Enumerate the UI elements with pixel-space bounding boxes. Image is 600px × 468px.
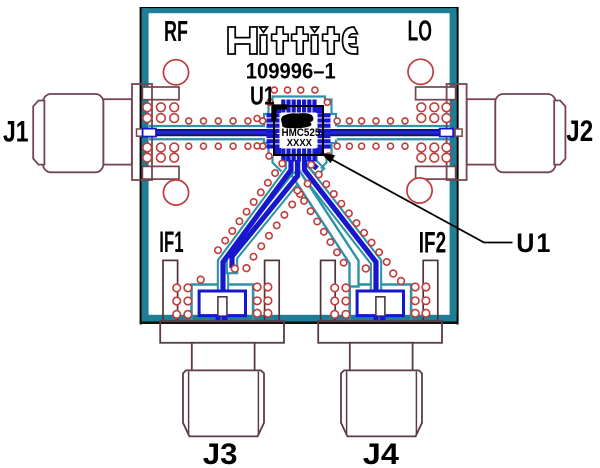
svg-text:J2: J2 [566, 115, 593, 148]
svg-text:XXXX: XXXX [287, 138, 312, 149]
svg-text:J4: J4 [363, 437, 400, 468]
svg-text:109996–1: 109996–1 [246, 60, 336, 84]
svg-text:U1: U1 [516, 229, 552, 258]
svg-text:J3: J3 [203, 438, 238, 468]
svg-text:IF2: IF2 [419, 226, 446, 260]
svg-text:IF1: IF1 [159, 226, 183, 259]
svg-text:RF: RF [164, 16, 188, 48]
svg-text:LO: LO [408, 16, 433, 47]
svg-text:U1: U1 [250, 81, 275, 111]
svg-text:J1: J1 [3, 115, 29, 148]
